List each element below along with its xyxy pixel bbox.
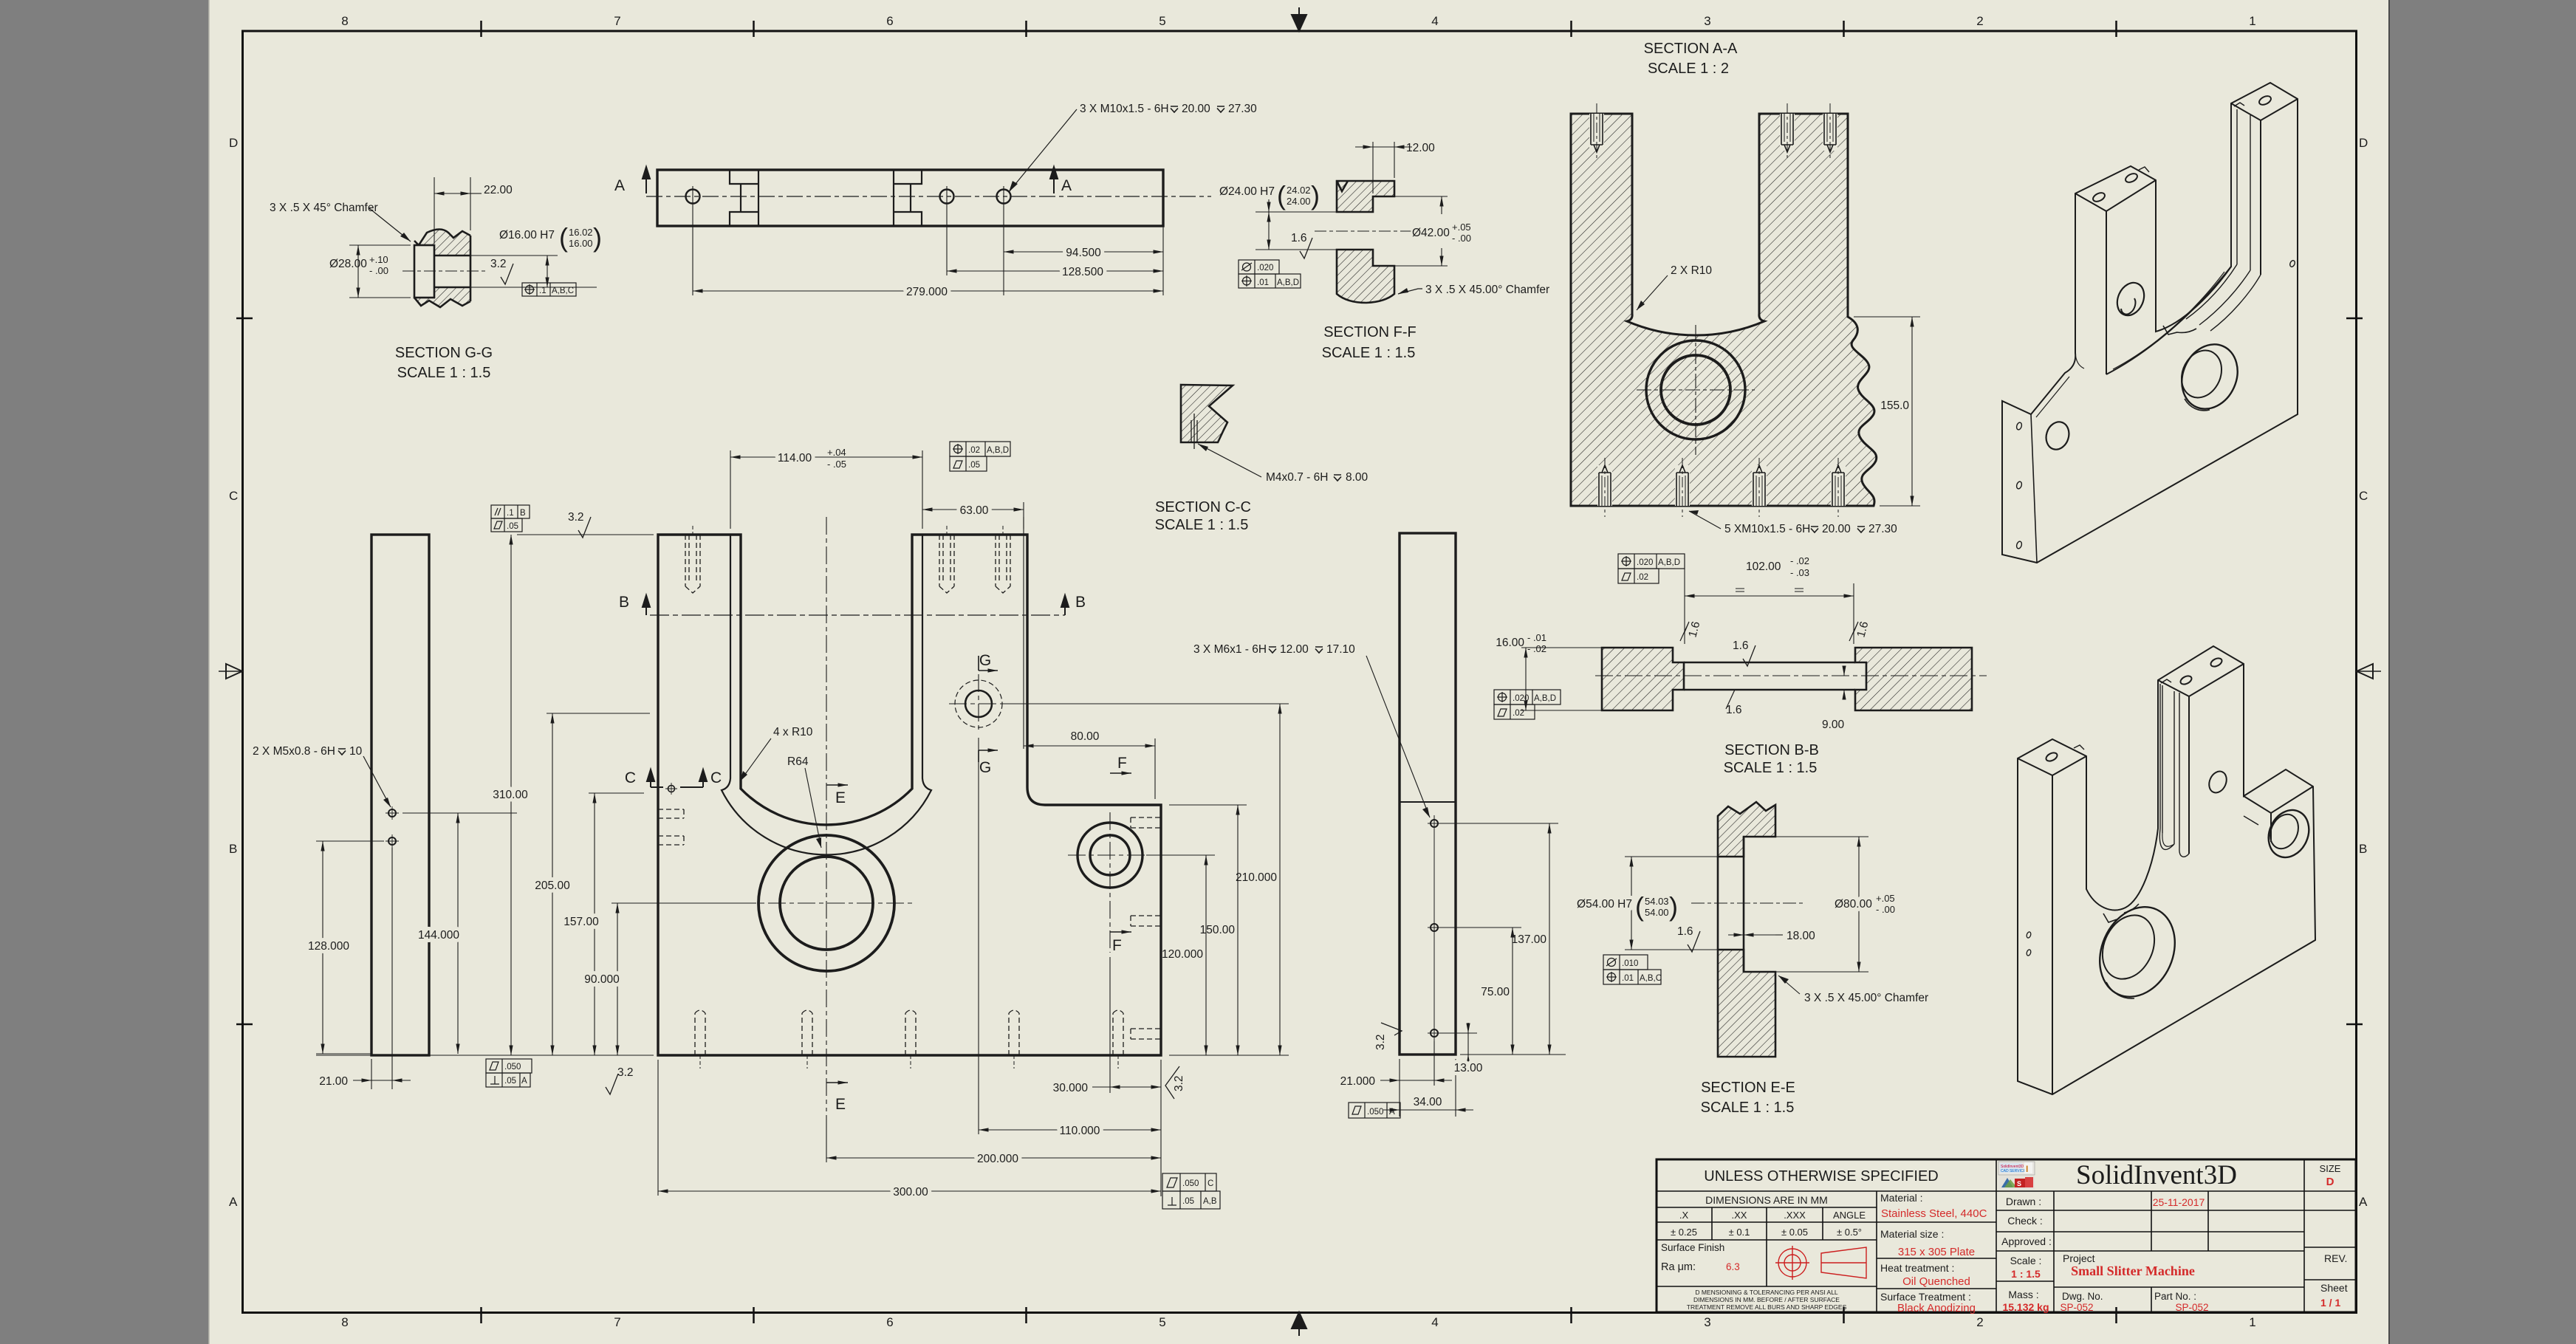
svg-text:A,B,C: A,B,C — [552, 287, 574, 295]
svg-text:+.10: +.10 — [369, 254, 388, 265]
svg-text:- .00: - .00 — [1452, 233, 1471, 244]
svg-text:18.00: 18.00 — [1787, 930, 1815, 942]
svg-text:13.00: 13.00 — [1454, 1062, 1483, 1074]
svg-text:Oil Quenched: Oil Quenched — [1902, 1275, 1970, 1288]
svg-text:SECTION A-A: SECTION A-A — [1644, 41, 1738, 57]
svg-text:A: A — [521, 1077, 527, 1086]
svg-text:Approved :: Approved : — [2001, 1235, 2052, 1247]
svg-text:3 X .5 X 45.00° Chamfer: 3 X .5 X 45.00° Chamfer — [1425, 284, 1549, 296]
svg-text:5: 5 — [1159, 1315, 1165, 1329]
18.00 — [1728, 934, 1783, 936]
svg-text:± 0.25: ± 0.25 — [1671, 1227, 1697, 1238]
svg-text:Surface Finish: Surface Finish — [1661, 1242, 1724, 1253]
svg-text:20.00: 20.00 — [1822, 523, 1851, 535]
FCF bottom-left pair — [486, 1059, 532, 1087]
svg-text:DIMENSIONS ARE IN MM: DIMENSIONS ARE IN MM — [1705, 1194, 1828, 1206]
svg-text:(: ( — [559, 222, 568, 253]
ruler column labels bottom — [341, 1315, 2255, 1329]
front face small hole — [2206, 769, 2230, 795]
svg-text:- .00: - .00 — [1876, 904, 1895, 915]
svg-text:27.30: 27.30 — [1228, 103, 1257, 115]
svg-text:Ø42.00: Ø42.00 — [1412, 227, 1450, 239]
bar outline — [657, 170, 1163, 226]
svg-text:2 X R10: 2 X R10 — [1671, 264, 1712, 277]
svg-text:.1: .1 — [507, 509, 514, 518]
svg-text:90.000: 90.000 — [584, 973, 620, 986]
svg-text:.02: .02 — [968, 446, 980, 455]
svg-text:A: A — [1389, 1108, 1395, 1117]
tiny holes left tower face — [2026, 931, 2032, 939]
logo — [1998, 1162, 2035, 1175]
centerline — [402, 270, 487, 272]
svg-text:DIMENSIONS IN MM. BEFORE / AFT: DIMENSIONS IN MM. BEFORE / AFTER SURFACE — [1693, 1296, 1840, 1303]
svg-text:.05: .05 — [504, 1077, 516, 1086]
svg-text:F: F — [1117, 755, 1127, 772]
svg-text:10: 10 — [349, 745, 363, 758]
svg-text:22.00: 22.00 — [484, 184, 513, 196]
svg-text:3 X .5 X 45° Chamfer: 3 X .5 X 45° Chamfer — [270, 202, 378, 214]
FCF .050 A — [1349, 1103, 1400, 1118]
svg-text:.05: .05 — [1182, 1197, 1194, 1206]
svg-text:63.00: 63.00 — [960, 504, 989, 517]
svg-text:20.00: 20.00 — [1182, 103, 1210, 115]
drawing frame border — [243, 31, 2357, 1313]
svg-text:21.00: 21.00 — [319, 1075, 348, 1088]
svg-text:G: G — [979, 652, 991, 669]
svg-text:Small Slitter Machine: Small Slitter Machine — [2071, 1264, 2195, 1278]
front face bores — [2112, 278, 2149, 320]
svg-text:9.00: 9.00 — [1822, 719, 1845, 731]
svg-text:B: B — [229, 842, 237, 856]
svg-text:24.02: 24.02 — [1287, 185, 1311, 196]
FCF top-left pair — [491, 505, 530, 532]
svg-text:3.2: 3.2 — [1173, 1075, 1185, 1091]
svg-text:- .00: - .00 — [369, 265, 388, 276]
notch 1 — [730, 170, 922, 226]
dashed bottom studs — [695, 1010, 1123, 1055]
svg-text:5: 5 — [1159, 14, 1165, 28]
svg-text:SCALE 1 : 1.5: SCALE 1 : 1.5 — [1701, 1100, 1795, 1116]
bottom dims 30/110/200/300 — [658, 738, 1161, 1196]
dia42 — [1394, 196, 1448, 266]
holes — [686, 190, 1011, 204]
114 dim — [730, 450, 922, 529]
svg-text:.050: .050 — [1182, 1179, 1199, 1188]
svg-text:6: 6 — [886, 1315, 893, 1329]
svg-text:SECTION F-F: SECTION F-F — [1323, 324, 1417, 340]
FCF bottom right — [1162, 1173, 1220, 1209]
svg-text:128.000: 128.000 — [308, 940, 349, 953]
svg-text:SP-052: SP-052 — [2060, 1302, 2093, 1313]
svg-text:300.00: 300.00 — [893, 1186, 928, 1199]
svg-text:150.00: 150.00 — [1200, 924, 1236, 936]
svg-text:B: B — [2359, 842, 2367, 856]
svg-text:A,B,D: A,B,D — [1534, 694, 1556, 703]
centerlines — [739, 517, 1152, 1111]
svg-text:+.05: +.05 — [1876, 893, 1895, 904]
svg-text:2 X M5x0.8 - 6H: 2 X M5x0.8 - 6H — [253, 745, 335, 758]
svg-text:Ø24.00 H7: Ø24.00 H7 — [1219, 185, 1275, 198]
svg-text:.020: .020 — [1513, 694, 1529, 703]
svg-text:.01: .01 — [1257, 278, 1269, 287]
svg-text:): ) — [1669, 891, 1678, 922]
svg-text:SECTION E-E: SECTION E-E — [1701, 1080, 1795, 1096]
svg-text:Drawn :: Drawn : — [2006, 1196, 2041, 1207]
svg-text:(: ( — [1635, 891, 1644, 922]
svg-text:16.00: 16.00 — [1496, 637, 1524, 649]
svg-text:- .03: - .03 — [1790, 567, 1809, 578]
svg-text:.X: .X — [1679, 1210, 1689, 1221]
svg-text:16.00: 16.00 — [569, 238, 593, 249]
narrow face holes — [2043, 419, 2072, 452]
svg-text:120.000: 120.000 — [1162, 948, 1203, 961]
svg-text:8.00: 8.00 — [1346, 471, 1368, 484]
svg-text:7: 7 — [614, 14, 620, 28]
svg-text:D: D — [2359, 136, 2368, 150]
svg-text:205.00: 205.00 — [535, 880, 570, 892]
dashed side slots left column — [658, 809, 684, 845]
svg-text:.1: .1 — [539, 287, 547, 295]
svg-text:1.6: 1.6 — [1677, 925, 1693, 938]
svg-text:I: I — [2026, 1164, 2028, 1174]
svg-text:ANGLE: ANGLE — [1833, 1210, 1866, 1221]
svg-text:.XX: .XX — [1732, 1210, 1747, 1221]
svg-text:B: B — [1075, 594, 1086, 611]
svg-text:Material :: Material : — [1880, 1192, 1923, 1204]
FCF near 114 — [950, 442, 1010, 471]
FCF left lower — [1494, 690, 1561, 719]
svg-text:6: 6 — [886, 14, 893, 28]
svg-text:24.00: 24.00 — [1287, 196, 1311, 207]
svg-text:SIZE: SIZE — [2320, 1163, 2341, 1174]
svg-text:- .05: - .05 — [827, 459, 846, 470]
svg-text:110.000: 110.000 — [1060, 1125, 1100, 1137]
svg-text:G: G — [979, 759, 991, 776]
svg-text:SCALE 1 : 2: SCALE 1 : 2 — [1648, 61, 1729, 77]
svg-text:± 0.1: ± 0.1 — [1729, 1227, 1750, 1238]
svg-text:Dwg. No.: Dwg. No. — [2062, 1291, 2103, 1302]
svg-text:310.00: 310.00 — [493, 789, 528, 801]
B-B section line — [650, 614, 1065, 616]
svg-text:A,B,C: A,B,C — [1640, 974, 1662, 983]
svg-text:A: A — [614, 177, 625, 194]
svg-text:Stainless Steel, 440C: Stainless Steel, 440C — [1881, 1207, 1987, 1220]
chamfer leader — [1778, 976, 1800, 994]
svg-text:8: 8 — [341, 14, 348, 28]
bore in notch — [2261, 803, 2316, 863]
svg-text:D: D — [229, 136, 238, 150]
svg-text:A: A — [229, 1195, 238, 1209]
svg-text:SECTION C-C: SECTION C-C — [1155, 499, 1251, 515]
C-C section arrows — [647, 769, 707, 787]
svg-text:315 x 305 Plate: 315 x 305 Plate — [1898, 1246, 1975, 1258]
slot chamfer edges + R64 relief arc — [722, 535, 931, 854]
svg-text:27.30: 27.30 — [1868, 523, 1897, 535]
svg-text:.050: .050 — [1367, 1108, 1383, 1117]
svg-text:- .01: - .01 — [1527, 632, 1546, 643]
9.00 — [1843, 667, 1845, 699]
svg-text:TREATMENT REMOVE ALL BURS AND: TREATMENT REMOVE ALL BURS AND SHARP EDGE… — [1687, 1303, 1847, 1311]
svg-text:54.03: 54.03 — [1645, 896, 1669, 907]
svg-text:E: E — [835, 1096, 846, 1113]
section A arrows — [643, 167, 1058, 193]
22.00 dim — [434, 177, 482, 244]
svg-text:3 X M10x1.5 - 6H: 3 X M10x1.5 - 6H — [1080, 103, 1169, 115]
svg-text:.050: .050 — [504, 1063, 521, 1072]
svg-text:E: E — [835, 789, 846, 806]
svg-text:- .02: - .02 — [1527, 643, 1546, 654]
bore — [1646, 340, 1745, 439]
svg-text:2: 2 — [1976, 1315, 1983, 1329]
svg-text:Check :: Check : — [2007, 1215, 2042, 1227]
svg-text:Ø80.00: Ø80.00 — [1835, 898, 1872, 911]
svg-text:3: 3 — [1704, 14, 1710, 28]
notch 2 — [894, 170, 922, 226]
svg-text:137.00: 137.00 — [1512, 933, 1547, 946]
svg-text:3: 3 — [1704, 1315, 1710, 1329]
svg-text:4: 4 — [1431, 14, 1438, 28]
top face holes / notches — [2045, 751, 2059, 763]
dashed top holes — [685, 535, 1010, 593]
svg-text:R64: R64 — [787, 755, 809, 768]
bottom studs — [1597, 458, 1846, 517]
svg-text:200.000: 200.000 — [977, 1153, 1018, 1165]
svg-text:94.500: 94.500 — [1066, 247, 1101, 259]
svg-text:A,B,D: A,B,D — [1658, 558, 1680, 567]
svg-text:Project: Project — [2063, 1252, 2095, 1264]
G circle — [965, 690, 992, 717]
big counterbore — [2086, 895, 2189, 1009]
svg-text:30.000: 30.000 — [1053, 1082, 1089, 1094]
svg-text:1 / 1: 1 / 1 — [2320, 1297, 2340, 1309]
hatch areas — [414, 230, 470, 256]
FCF — [1603, 955, 1661, 984]
svg-text:80.00: 80.00 — [1071, 730, 1100, 743]
svg-text:UNLESS OTHERWISE SPECIFIED: UNLESS OTHERWISE SPECIFIED — [1704, 1168, 1938, 1184]
svg-text:Surface Treatment :: Surface Treatment : — [1880, 1291, 1971, 1303]
svg-text:.02: .02 — [1637, 573, 1648, 582]
svg-text:): ) — [1311, 180, 1320, 210]
svg-text:Part No. :: Part No. : — [2154, 1291, 2196, 1302]
svg-text:4: 4 — [1431, 1315, 1438, 1329]
80 dim — [1024, 517, 1155, 799]
12.00 dim — [1355, 142, 1412, 193]
svg-text:Ra μm:: Ra μm: — [1661, 1261, 1696, 1273]
svg-text:34.00: 34.00 — [1414, 1096, 1442, 1108]
svg-text:279.000: 279.000 — [906, 286, 948, 298]
FCF — [1239, 260, 1301, 288]
svg-text:B: B — [619, 594, 629, 611]
svg-text:157.00: 157.00 — [563, 916, 599, 928]
E section arrows — [826, 785, 848, 1083]
svg-text:1.6: 1.6 — [1733, 640, 1749, 652]
svg-text:144.000: 144.000 — [418, 929, 459, 942]
svg-text:3 X M6x1 - 6H: 3 X M6x1 - 6H — [1193, 643, 1267, 656]
middle columns — [2001, 1196, 2052, 1300]
svg-text:102.00: 102.00 — [1746, 560, 1781, 573]
svg-text:Ø28.00: Ø28.00 — [329, 258, 367, 270]
svg-text:Sheet: Sheet — [2320, 1282, 2348, 1294]
svg-text:A: A — [1061, 177, 1072, 194]
E circles — [758, 835, 894, 971]
svg-text:128.500: 128.500 — [1062, 266, 1103, 278]
F circles — [1078, 823, 1143, 888]
155 dim — [1854, 317, 1920, 506]
svg-text:3.2: 3.2 — [617, 1066, 634, 1079]
svg-text:Black Anodizing: Black Anodizing — [1897, 1302, 1976, 1314]
svg-text:+.04: +.04 — [827, 447, 846, 458]
svg-text:SCALE 1 : 1.5: SCALE 1 : 1.5 — [1155, 517, 1249, 533]
svg-text:8: 8 — [341, 1315, 348, 1329]
svg-text:± 0.05: ± 0.05 — [1781, 1227, 1808, 1238]
top threaded holes — [1589, 103, 1837, 159]
svg-text:75.00: 75.00 — [1481, 986, 1510, 998]
svg-text:+.05: +.05 — [1452, 222, 1471, 233]
svg-text:.XXX: .XXX — [1784, 1210, 1806, 1221]
svg-text:Mass :: Mass : — [2008, 1289, 2038, 1300]
svg-text:114.00: 114.00 — [778, 452, 812, 464]
svg-text:C: C — [625, 769, 636, 786]
svg-text:A,B,D: A,B,D — [987, 446, 1009, 455]
svg-text:SECTION G-G: SECTION G-G — [395, 345, 493, 361]
dims 128 / 144 / 21 — [316, 813, 517, 1089]
svg-text:Ø16.00 H7: Ø16.00 H7 — [499, 229, 555, 241]
svg-text:SolidInvent3D: SolidInvent3D — [2076, 1160, 2237, 1190]
svg-text:21.000: 21.000 — [1340, 1075, 1376, 1088]
svg-text:3 X .5 X 45.00° Chamfer: 3 X .5 X 45.00° Chamfer — [1804, 992, 1928, 1004]
svg-text:.020: .020 — [1637, 558, 1653, 567]
svg-text:.01: .01 — [1622, 974, 1634, 983]
svg-text:3.2: 3.2 — [490, 258, 507, 270]
small hole right edge — [2289, 260, 2295, 268]
svg-text:16.02: 16.02 — [569, 227, 593, 238]
notches on top faces — [2139, 167, 2149, 172]
F section arrows — [1110, 773, 1131, 932]
centerline — [646, 196, 1211, 197]
svg-text:6.3: 6.3 — [1726, 1261, 1740, 1272]
chamfer leader — [1398, 289, 1422, 294]
ruler column labels top — [341, 14, 2255, 28]
svg-text:.010: .010 — [1622, 959, 1638, 968]
svg-text:Scale :: Scale : — [2010, 1255, 2042, 1266]
svg-text:F: F — [1112, 937, 1122, 954]
svg-text:2: 2 — [1976, 14, 1983, 28]
svg-text:S: S — [2017, 1180, 2021, 1187]
top face holes — [2092, 191, 2106, 203]
svg-text:Ø54.00 H7: Ø54.00 H7 — [1577, 898, 1632, 911]
svg-text:): ) — [593, 222, 602, 253]
svg-text:17.10: 17.10 — [1326, 643, 1355, 656]
svg-text:3.2: 3.2 — [1374, 1034, 1387, 1050]
svg-text:SCALE 1 : 1.5: SCALE 1 : 1.5 — [1724, 760, 1818, 776]
svg-text:C: C — [229, 489, 238, 503]
outline — [658, 535, 1161, 1055]
svg-text:REV.: REV. — [2324, 1252, 2347, 1264]
svg-text:4 x R10: 4 x R10 — [773, 726, 813, 738]
svg-text:D: D — [2326, 1176, 2334, 1188]
16.00 dim — [1521, 648, 1602, 710]
FCF top pair (102 dim) — [1618, 554, 1685, 583]
right notch — [2244, 786, 2313, 842]
svg-text:± 0.5°: ± 0.5° — [1837, 1227, 1862, 1238]
svg-text:Material size :: Material size : — [1880, 1228, 1944, 1240]
svg-text:1: 1 — [2249, 1315, 2255, 1329]
svg-text:D MENSIONING & TOLERANCING PER: D MENSIONING & TOLERANCING PER ANSI ALL — [1695, 1289, 1838, 1296]
svg-text:3.2: 3.2 — [568, 511, 584, 524]
svg-text:155.0: 155.0 — [1880, 400, 1909, 412]
svg-text:15.132 kg: 15.132 kg — [2002, 1301, 2049, 1313]
svg-text:A: A — [2359, 1195, 2368, 1209]
svg-text:SP-052: SP-052 — [2175, 1302, 2208, 1313]
svg-text:.020: .020 — [1257, 264, 1273, 272]
dims — [693, 207, 1163, 295]
G section arrows — [979, 656, 998, 762]
svg-text:1: 1 — [2249, 14, 2255, 28]
svg-text:A,B: A,B — [1203, 1197, 1217, 1206]
svg-text:Heat treatment :: Heat treatment : — [1880, 1262, 1954, 1274]
outline — [414, 230, 470, 246]
svg-text:M4x0.7 - 6H: M4x0.7 - 6H — [1266, 471, 1328, 484]
right vertical dims 210/150/120 — [1004, 704, 1289, 1055]
dims — [1380, 823, 1566, 1117]
svg-text:SCALE 1 : 1.5: SCALE 1 : 1.5 — [397, 365, 491, 381]
svg-text:A,B,D: A,B,D — [1277, 278, 1299, 287]
svg-text:54.00: 54.00 — [1645, 907, 1669, 918]
left vertical dims 310/205/157/90 — [316, 535, 746, 1055]
svg-text:1.6: 1.6 — [1291, 232, 1307, 244]
dia54 — [1625, 857, 1718, 950]
svg-text:C: C — [710, 769, 722, 786]
63 dim — [922, 502, 1024, 529]
svg-text:210.000: 210.000 — [1236, 871, 1277, 884]
svg-text:12.00: 12.00 — [1280, 643, 1309, 656]
dashed side slots right — [1131, 817, 1161, 1039]
svg-text:C: C — [1207, 1179, 1213, 1188]
svg-text:25-11-2017: 25-11-2017 — [2153, 1196, 2205, 1208]
svg-text:.05: .05 — [968, 461, 980, 470]
ruler row labels — [229, 136, 2368, 1209]
dia80 — [1775, 837, 1868, 972]
svg-text:5 XM10x1.5 - 6H: 5 XM10x1.5 - 6H — [1724, 523, 1810, 535]
svg-text:12.00: 12.00 — [1406, 142, 1435, 154]
svg-text:1.6: 1.6 — [1726, 704, 1742, 716]
svg-text:7: 7 — [614, 1315, 620, 1329]
svg-text:.02: .02 — [1513, 709, 1524, 718]
svg-text:B: B — [520, 509, 526, 518]
svg-text:- .02: - .02 — [1790, 555, 1809, 566]
svg-text:1 : 1.5: 1 : 1.5 — [2011, 1268, 2041, 1280]
FCF — [522, 283, 576, 296]
svg-text:SCALE 1 : 1.5: SCALE 1 : 1.5 — [1322, 345, 1416, 361]
svg-text:C: C — [2359, 489, 2368, 503]
svg-text:SECTION B-B: SECTION B-B — [1724, 742, 1819, 758]
svg-text:(: ( — [1277, 180, 1286, 210]
svg-text:.05: .05 — [507, 522, 518, 531]
